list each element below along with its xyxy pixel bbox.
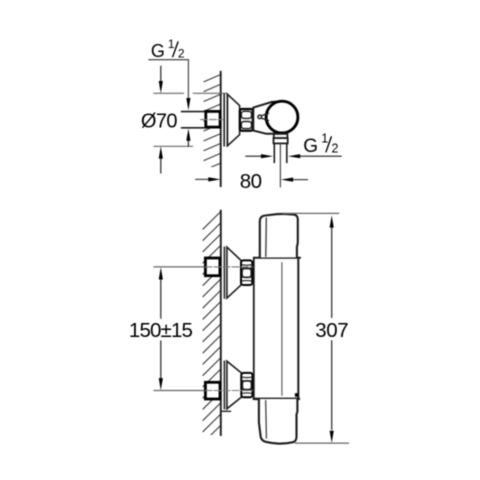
- dimension Ø70: upper arrow (points down): [160, 66, 162, 82]
- hex union nut upper (front view): [241, 260, 252, 285]
- dimension 80: left segment with arrow to wall: [196, 178, 209, 180]
- centerline lower inlet (dash-dot over fitting): [205, 390, 254, 392]
- dimension 150±15: vertical line upper segment: [160, 280, 162, 319]
- outlet pipe centerline: [279, 144, 281, 187]
- escutcheon cone (top view): [227, 94, 239, 146]
- outlet connector bands (top view): [273, 133, 275, 134]
- dimension 307: top arrow (points up): [330, 215, 334, 227]
- wall hatching (front view): [203, 212, 221, 466]
- svg-text:Ø70: Ø70: [141, 110, 178, 132]
- escutcheon lower lip: [222, 410, 231, 412]
- extension line + centerline upper inlet: [154, 266, 205, 268]
- dimension 307: bottom arrow (points down): [330, 431, 334, 443]
- svg-text:G: G: [303, 136, 318, 157]
- thermostat knob circle (top view): [266, 101, 298, 133]
- outlet pipe (top view): [273, 143, 275, 162]
- dimension 307: vertical line upper segment: [331, 228, 333, 318]
- centerline upper inlet (dash-dot over fitting): [205, 266, 254, 268]
- svg-text:1: 1: [168, 37, 175, 51]
- valve body (front view): [254, 258, 300, 399]
- G1/2 outlet dimension: right arrow: [301, 155, 342, 157]
- dimension Ø70: lower arrow (points up): [160, 159, 162, 174]
- dimension 150±15: lower arrow (points down): [159, 378, 163, 390]
- centerline through union (top view): [201, 119, 223, 121]
- dimension Ø70: upper extension line: [154, 92, 184, 94]
- wall surface line (top view): [220, 72, 222, 187]
- valve body (top view): [253, 101, 282, 133]
- square wall nut (top view): [206, 111, 220, 127]
- bottom cap (front view): [259, 399, 298, 444]
- fraction slash of right G 1/2: [326, 137, 331, 152]
- svg-text:G: G: [151, 41, 165, 61]
- dimension 307: top extension line: [283, 212, 339, 214]
- dimension 307: bottom extension line: [296, 442, 349, 444]
- svg-text:150±15: 150±15: [129, 319, 193, 342]
- lever wedge (top view): [261, 113, 268, 120]
- svg-text:2: 2: [178, 47, 185, 61]
- svg-text:1: 1: [321, 132, 328, 146]
- svg-text:307: 307: [315, 319, 348, 342]
- dimension 80: right segment with arrow to pipe centerline: [293, 179, 308, 181]
- square wall nut lower (front view): [205, 382, 220, 399]
- escutcheon cone upper (front view): [227, 247, 241, 298]
- escutcheon cone lower (front view): [227, 361, 241, 409]
- leader arrow down to pipe (tip on pipe top edge): [186, 98, 190, 110]
- wall hatching (top view): [204, 75, 221, 181]
- extension line lower inlet: [154, 390, 205, 392]
- wall surface line (front view): [220, 211, 222, 436]
- hex union nut lower (front view): [241, 373, 252, 397]
- leader underline of left G 1/2: [149, 60, 189, 98]
- square wall nut upper (front view): [205, 258, 220, 276]
- fraction slash of left G 1/2: [173, 42, 178, 57]
- dimension 307: vertical line lower segment: [331, 341, 333, 430]
- supply pipe in wall (top view): [182, 111, 206, 113]
- top cap (front view): [260, 214, 298, 258]
- G1/2 pipe-diameter arrow (points up at pipe bottom): [187, 141, 189, 147]
- G1/2 outlet dimension: left arrow: [246, 155, 262, 157]
- dimension Ø70: lower extension line: [154, 145, 193, 147]
- label G 1/2 (top left): [151, 37, 185, 61]
- svg-text:2: 2: [332, 142, 339, 156]
- svg-text:80: 80: [240, 170, 262, 193]
- label G 1/2 (right of outlet): [303, 132, 338, 158]
- dimension 150±15: vertical line lower segment: [160, 341, 162, 378]
- dimension 150±15: upper arrow (points up): [159, 267, 163, 279]
- hex union nut (top view): [240, 109, 253, 131]
